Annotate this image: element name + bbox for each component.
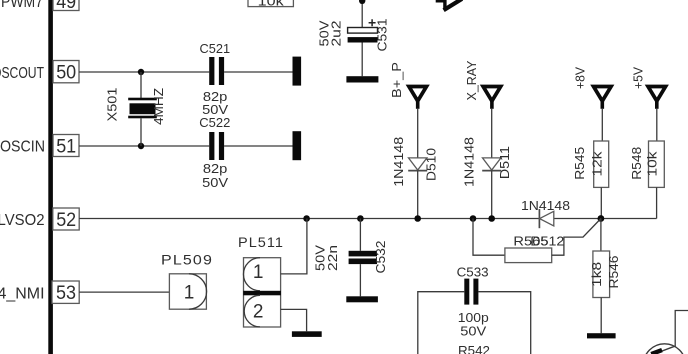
pin 50 box xyxy=(53,61,79,84)
svg-text:10k: 10k xyxy=(258,0,284,9)
svg-text:49: 49 xyxy=(56,0,76,13)
svg-text:+5V: +5V xyxy=(632,66,646,89)
wire C533 left xyxy=(418,292,465,354)
svg-text:D510: D510 xyxy=(425,148,439,181)
svg-text:51: 51 xyxy=(56,136,76,157)
svg-text:C531: C531 xyxy=(375,18,389,51)
svg-text:12k: 12k xyxy=(591,151,605,177)
svg-text:C533: C533 xyxy=(457,266,489,280)
wire net pin52 left xyxy=(79,218,539,220)
svg-text:OSCIN: OSCIN xyxy=(0,139,45,156)
svg-text:22n: 22n xyxy=(326,245,340,271)
wire C531 top xyxy=(361,0,363,28)
capacitor C532 xyxy=(349,251,377,296)
svg-text:100p: 100p xyxy=(458,311,489,325)
svg-text:1N4148: 1N4148 xyxy=(463,137,477,187)
svg-text:1: 1 xyxy=(253,262,264,283)
terminal bar (pin 50 net) xyxy=(293,57,302,86)
svg-text:52: 52 xyxy=(56,210,76,231)
svg-text:2: 2 xyxy=(253,302,264,323)
svg-text:LVSO2: LVSO2 xyxy=(0,212,45,229)
svg-text:4_NMI: 4_NMI xyxy=(0,286,45,303)
flag B+_P xyxy=(409,87,427,109)
svg-text:1k8: 1k8 xyxy=(590,262,604,287)
node junction D511 branch xyxy=(488,215,495,222)
svg-text:R546: R546 xyxy=(607,255,621,288)
diode D511 xyxy=(482,158,501,171)
wire flag to D510 xyxy=(417,109,419,158)
node junction D510 branch xyxy=(414,215,421,222)
resistor R565 xyxy=(505,248,552,263)
svg-text:2u2: 2u2 xyxy=(330,20,344,46)
svg-text:53: 53 xyxy=(56,283,76,304)
flag +5V xyxy=(648,87,666,109)
pin 52 box xyxy=(53,208,79,231)
ground (R546) xyxy=(587,333,616,338)
wire flag to D511 xyxy=(491,109,493,158)
ground (PL511 pin2) xyxy=(292,331,322,337)
svg-text:4MHZ: 4MHZ xyxy=(152,88,166,125)
transistor Q (cut off at corner) xyxy=(643,311,688,354)
diode D512 xyxy=(539,209,553,228)
wire pin53 to PL509 xyxy=(79,291,169,293)
resistor top 10k (cut off) xyxy=(248,0,293,9)
svg-text:1N4148: 1N4148 xyxy=(392,137,406,187)
svg-text:C532: C532 xyxy=(374,240,388,273)
resistor R548 xyxy=(649,141,665,187)
wire R545 to net xyxy=(600,187,602,218)
pin 53 box xyxy=(52,281,79,304)
wire net pin52 right xyxy=(554,218,657,220)
crystal X501 xyxy=(128,72,157,146)
wire D511 to net xyxy=(491,171,493,219)
node junction at crystal top xyxy=(138,69,144,75)
svg-text:+8V: +8V xyxy=(574,66,588,89)
svg-text:X_RAY: X_RAY xyxy=(465,60,479,101)
svg-text:50: 50 xyxy=(56,62,76,83)
wire C533 right xyxy=(478,292,530,354)
svg-text:C522: C522 xyxy=(199,116,230,130)
svg-text:50V: 50V xyxy=(460,324,487,338)
IC body edge bar xyxy=(48,0,53,354)
flag +8V xyxy=(594,87,612,109)
svg-text:D511: D511 xyxy=(498,146,512,179)
connector PL511 xyxy=(243,258,281,327)
wire R548 down to net xyxy=(656,187,658,218)
svg-text:PWM7: PWM7 xyxy=(1,0,43,11)
wire junction to R546 xyxy=(600,219,602,252)
wire C521 to terminal bar xyxy=(224,71,292,73)
svg-text:X501: X501 xyxy=(105,87,119,121)
svg-text:PL509: PL509 xyxy=(161,251,213,267)
terminal bar (pin 51 net) xyxy=(293,131,302,160)
off-sheet arrow (cut off at top) xyxy=(436,0,462,10)
wire D510 to net xyxy=(417,171,419,219)
svg-text:C521: C521 xyxy=(200,42,231,56)
ground (C532) xyxy=(346,296,378,302)
wire net to C532 xyxy=(359,219,361,251)
wire +8V to R545 xyxy=(601,109,603,141)
wire C522 to terminal bar xyxy=(224,145,292,147)
svg-text:PL511: PL511 xyxy=(238,234,284,250)
wire pin50 to C521 xyxy=(79,71,209,73)
node junction C532 branch xyxy=(357,215,364,222)
resistor R546 xyxy=(593,251,610,298)
diode D510 xyxy=(408,158,427,171)
node junction at crystal bottom xyxy=(138,143,144,149)
capacitor C522 xyxy=(209,132,224,160)
pin 49 box xyxy=(53,0,79,13)
wire net to R565 left xyxy=(473,219,505,256)
wire R546 to ground xyxy=(600,298,602,334)
connector PL509 xyxy=(169,274,206,309)
flag X_RAY xyxy=(483,87,501,109)
node junction at top edge xyxy=(359,0,365,4)
svg-text:10k: 10k xyxy=(646,151,660,177)
svg-text:OSCOUT: OSCOUT xyxy=(0,65,44,82)
svg-text:1: 1 xyxy=(184,283,195,304)
svg-text:50V: 50V xyxy=(202,176,229,190)
wire PL511 pin1 to net xyxy=(281,219,307,274)
node junction R565 branch xyxy=(470,215,477,222)
capacitor C531 polarized xyxy=(348,19,378,76)
node junction R545/R546 xyxy=(598,215,605,222)
capacitor C521 xyxy=(209,57,224,85)
capacitor C533 xyxy=(464,279,478,305)
svg-text:R542: R542 xyxy=(458,344,490,354)
pin 51 box xyxy=(53,135,79,158)
svg-text:82p: 82p xyxy=(203,90,228,104)
svg-text:82p: 82p xyxy=(203,162,228,176)
resistor R545 xyxy=(594,141,609,187)
svg-text:R545: R545 xyxy=(573,147,587,180)
node junction PL511 branch xyxy=(303,215,310,222)
svg-text:R548: R548 xyxy=(630,147,644,180)
ground (C531) xyxy=(346,76,378,82)
wire +5V to R548 xyxy=(656,109,658,141)
wire PL511 pin2 to ground xyxy=(281,309,307,331)
svg-text:B+_P: B+_P xyxy=(390,62,404,98)
wire pin51 to C522 xyxy=(79,145,209,147)
wire R565 right to junction xyxy=(552,219,601,256)
svg-text:D512: D512 xyxy=(530,234,564,248)
svg-text:1N4148: 1N4148 xyxy=(521,199,570,213)
